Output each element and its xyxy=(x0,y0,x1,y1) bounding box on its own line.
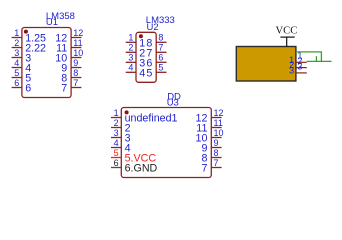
svg-text:1: 1 xyxy=(114,108,119,118)
svg-text:2: 2 xyxy=(14,38,19,48)
svg-text:3: 3 xyxy=(128,53,133,63)
chip U3 DD: left pin 4 (4) xyxy=(111,138,131,155)
wire segment A: horizontal from module edge xyxy=(296,51,322,53)
svg-text:VCC: VCC xyxy=(276,25,298,36)
svg-text:10: 10 xyxy=(214,128,224,138)
op-amp U1 LM358: body xyxy=(22,28,71,98)
svg-text:12: 12 xyxy=(73,28,83,38)
module M1: gold body rectangle xyxy=(236,47,296,82)
op-amp U1 LM358: right pin 10 (10) xyxy=(55,48,83,65)
svg-text:12: 12 xyxy=(214,108,224,118)
op-amp U1 LM358: pin-1 orientation dot xyxy=(24,30,28,34)
op-amp U1 LM358: right pin 12 (12) xyxy=(55,28,83,45)
wire segment C: horizontal along pin 1 net xyxy=(307,60,332,62)
op-amp U1 LM358: left pin 3 (3) xyxy=(12,48,32,65)
module M1: right pin 3 xyxy=(289,61,307,75)
regulator U2 LM333: right pin 7 (7) xyxy=(146,43,166,60)
svg-text:7: 7 xyxy=(201,163,207,175)
chip U3 DD: left pin 3 (3) xyxy=(111,128,131,145)
svg-text:6: 6 xyxy=(158,53,163,63)
op-amp U1 LM358: right pin 11 (11) xyxy=(56,38,83,55)
svg-text:1: 1 xyxy=(14,28,19,38)
svg-text:7: 7 xyxy=(73,78,78,88)
module M1: right pin 1 xyxy=(289,51,307,65)
svg-text:1: 1 xyxy=(128,33,133,43)
svg-text:3: 3 xyxy=(297,61,302,71)
chip U3 DD: right pin 12 (12) xyxy=(196,108,224,125)
svg-text:3: 3 xyxy=(289,65,294,75)
chip U3 DD: left pin 1 (undefined1) xyxy=(111,108,178,125)
svg-text:7: 7 xyxy=(158,43,163,53)
svg-text:6: 6 xyxy=(114,158,119,168)
svg-text:8: 8 xyxy=(158,33,163,43)
module M1: right pin 2 xyxy=(289,56,307,70)
svg-text:2: 2 xyxy=(114,118,119,128)
svg-text:4: 4 xyxy=(14,58,19,68)
chip U3 DD: left pin 6 (6.GND) xyxy=(111,158,158,175)
regulator U2 LM333: right pin 5 (5) xyxy=(146,63,166,80)
svg-text:5: 5 xyxy=(158,63,163,73)
svg-text:U3: U3 xyxy=(167,98,179,109)
op-amp U1 LM358: right pin 7 (7) xyxy=(61,78,81,95)
wire segment D: short vertical stub xyxy=(315,56,317,61)
svg-text:U1: U1 xyxy=(46,17,58,28)
regulator U2 LM333: left pin 1 (1) xyxy=(126,33,146,50)
regulator U2 LM333: pin-1 orientation dot xyxy=(139,34,143,38)
svg-text:4: 4 xyxy=(114,138,119,148)
svg-text:10: 10 xyxy=(73,48,83,58)
regulator U2 LM333: left pin 3 (3) xyxy=(126,53,146,70)
svg-text:3: 3 xyxy=(14,48,19,58)
chip U3 DD: right pin 8 (8) xyxy=(201,148,221,165)
svg-text:5: 5 xyxy=(114,148,119,158)
chip U3 DD: pin-1 orientation dot xyxy=(125,110,129,114)
op-amp U1 LM358: left pin 4 (4) xyxy=(12,58,32,75)
svg-text:9: 9 xyxy=(214,138,219,148)
svg-text:11: 11 xyxy=(73,38,82,48)
svg-text:8: 8 xyxy=(214,148,219,158)
svg-text:2: 2 xyxy=(128,43,133,53)
op-amp U1 LM358: right pin 9 (9) xyxy=(61,58,81,75)
svg-text:9: 9 xyxy=(73,58,78,68)
chip U3 DD: left pin 2 (2) xyxy=(111,118,131,135)
svg-text:5: 5 xyxy=(146,67,152,79)
chip U3 DD: right pin 7 (7) xyxy=(201,158,221,175)
chip U3 DD: right pin 11 (11) xyxy=(196,118,223,135)
op-amp U1 LM358: right pin 8 (8) xyxy=(61,68,81,85)
op-amp U1 LM358: left pin 1 (1.25) xyxy=(12,28,46,45)
svg-text:6: 6 xyxy=(14,78,19,88)
chip U3 DD: body xyxy=(121,108,211,178)
svg-text:4: 4 xyxy=(128,63,133,73)
regulator U2 LM333: left pin 4 (4) xyxy=(126,63,146,80)
chip U3 DD: right pin 9 (9) xyxy=(201,138,221,155)
regulator U2 LM333: body xyxy=(136,32,156,82)
power flag VCC: stem wire xyxy=(286,37,288,46)
wire segment B: vertical drop xyxy=(320,52,322,62)
power flag VCC: bar xyxy=(280,36,294,38)
svg-text:3: 3 xyxy=(114,128,119,138)
op-amp U1 LM358: left pin 5 (5) xyxy=(12,68,32,85)
regulator U2 LM333: left pin 2 (2) xyxy=(126,43,146,60)
op-amp U1 LM358: left pin 6 (6) xyxy=(12,78,32,95)
chip U3 DD: right pin 10 (10) xyxy=(196,128,224,145)
svg-text:11: 11 xyxy=(214,118,223,128)
op-amp U1 LM358: left pin 2 (2.22) xyxy=(12,38,46,55)
svg-text:6.GND: 6.GND xyxy=(125,163,158,175)
svg-text:undefined1: undefined1 xyxy=(125,113,178,125)
svg-text:8: 8 xyxy=(73,68,78,78)
svg-text:7: 7 xyxy=(214,158,219,168)
svg-text:6: 6 xyxy=(25,83,31,95)
svg-text:5: 5 xyxy=(14,68,19,78)
svg-text:7: 7 xyxy=(61,83,67,95)
svg-text:4: 4 xyxy=(139,67,145,79)
chip U3 DD: left pin 5 (5.VCC) xyxy=(111,148,156,165)
regulator U2 LM333: right pin 8 (8) xyxy=(146,33,166,50)
svg-text:U2: U2 xyxy=(147,22,159,33)
regulator U2 LM333: right pin 6 (6) xyxy=(146,53,166,70)
